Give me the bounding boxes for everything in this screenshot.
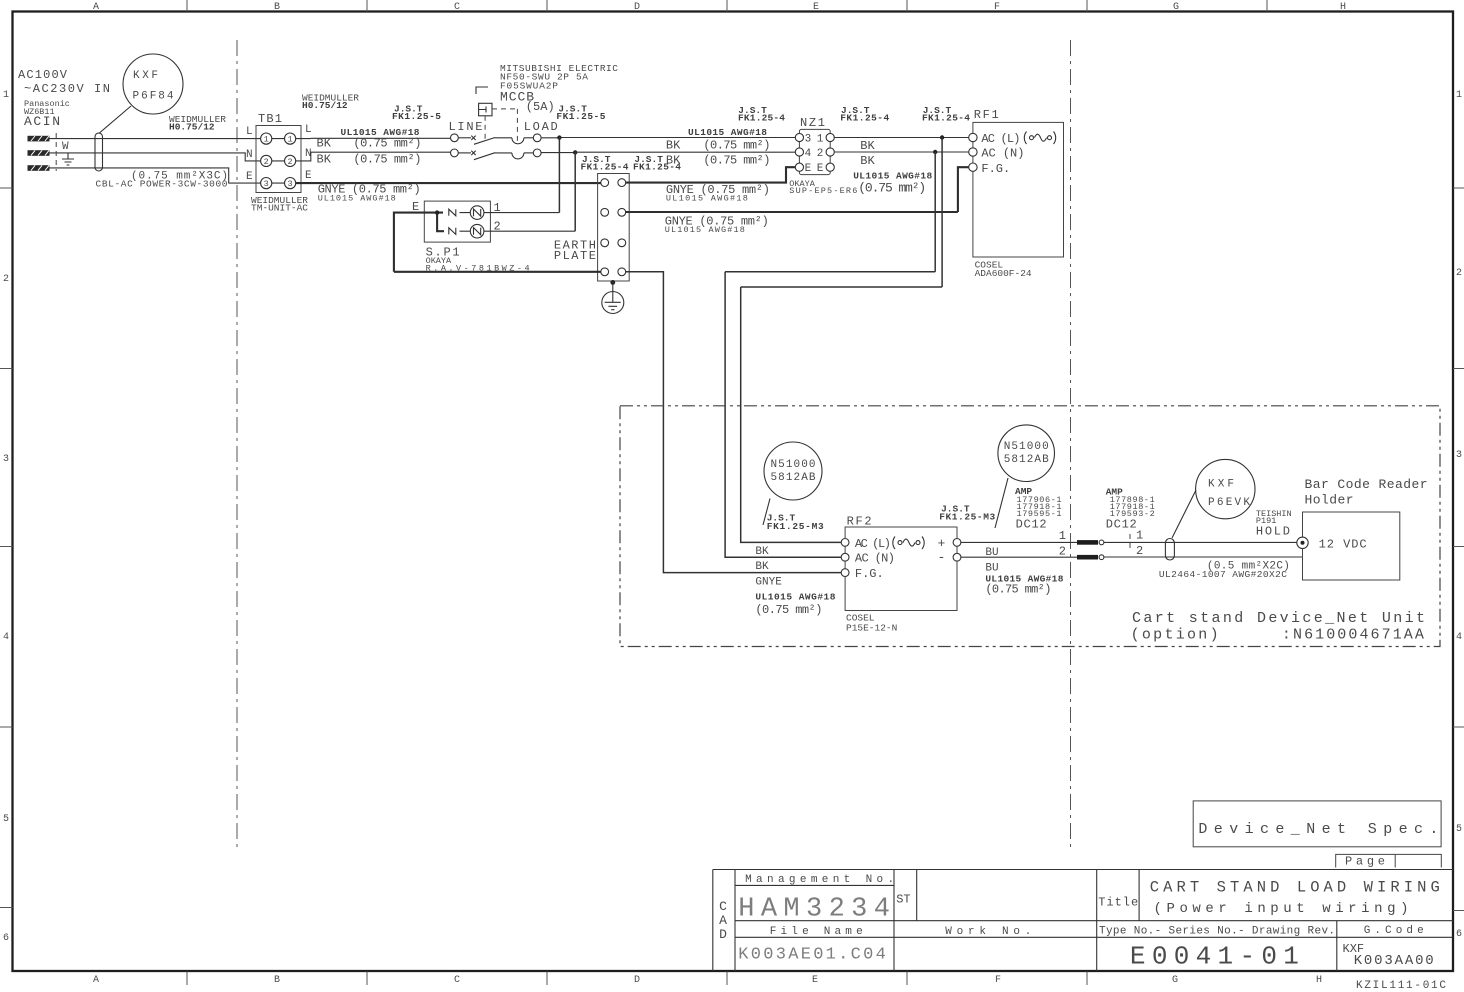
svg-text:1: 1 bbox=[288, 135, 293, 145]
svg-text:D: D bbox=[634, 2, 640, 13]
svg-text:HAM3234: HAM3234 bbox=[738, 895, 890, 925]
svg-text:F: F bbox=[994, 2, 1000, 13]
svg-text:3: 3 bbox=[1456, 450, 1462, 461]
svg-text:BK: BK bbox=[666, 154, 681, 168]
svg-text:KZIL111-01C: KZIL111-01C bbox=[1356, 980, 1446, 992]
svg-text:F.G.: F.G. bbox=[981, 162, 1010, 176]
svg-text:1: 1 bbox=[264, 135, 269, 145]
svg-text:(0.75 mm²): (0.75 mm²) bbox=[703, 138, 770, 152]
svg-text:AC (N): AC (N) bbox=[981, 147, 1024, 161]
svg-text:2: 2 bbox=[1456, 268, 1462, 279]
svg-text:P6F84: P6F84 bbox=[133, 91, 174, 103]
svg-text:LOAD: LOAD bbox=[524, 120, 558, 134]
svg-text:3: 3 bbox=[288, 179, 293, 189]
svg-text:1: 1 bbox=[1456, 90, 1462, 101]
svg-text:(0.75 mm²): (0.75 mm²) bbox=[985, 583, 1051, 597]
svg-text:FK1.25-4: FK1.25-4 bbox=[840, 113, 889, 124]
svg-text:A: A bbox=[93, 975, 99, 986]
svg-text:H: H bbox=[1316, 975, 1322, 986]
svg-text:3: 3 bbox=[805, 133, 812, 145]
svg-text:AC (L): AC (L) bbox=[855, 537, 891, 551]
svg-text:L: L bbox=[246, 126, 253, 138]
svg-text:K003AA00: K003AA00 bbox=[1354, 953, 1434, 969]
svg-text:UL1015 AWG#18: UL1015 AWG#18 bbox=[318, 194, 396, 204]
svg-text:E: E bbox=[246, 171, 253, 183]
svg-text:1: 1 bbox=[817, 133, 824, 145]
svg-text:2: 2 bbox=[1059, 545, 1066, 559]
svg-text:B: B bbox=[274, 2, 280, 13]
svg-text:CBL-AC POWER-3CW-3000: CBL-AC POWER-3CW-3000 bbox=[96, 179, 228, 190]
svg-text:TM-UNIT-AC: TM-UNIT-AC bbox=[251, 203, 308, 214]
svg-text:G: G bbox=[1172, 975, 1178, 986]
svg-text:RF1: RF1 bbox=[974, 108, 999, 122]
svg-text:BK: BK bbox=[755, 561, 769, 573]
svg-text:(0.75 mm²): (0.75 mm²) bbox=[703, 154, 770, 168]
svg-text:N: N bbox=[246, 149, 253, 161]
svg-text:2: 2 bbox=[817, 148, 824, 160]
svg-text:4: 4 bbox=[805, 148, 812, 160]
svg-text:N51000: N51000 bbox=[771, 459, 816, 471]
svg-text:(0.75 mm²): (0.75 mm²) bbox=[353, 153, 421, 167]
svg-text:AC100V: AC100V bbox=[18, 68, 68, 82]
svg-text:W: W bbox=[62, 141, 69, 153]
svg-text:E: E bbox=[812, 975, 818, 986]
svg-text:D: D bbox=[719, 927, 727, 942]
svg-text:DC12: DC12 bbox=[1016, 518, 1047, 532]
svg-text:BU: BU bbox=[985, 547, 998, 559]
svg-text:1: 1 bbox=[1059, 529, 1066, 543]
svg-text:1: 1 bbox=[1136, 529, 1143, 543]
svg-text:NZ1: NZ1 bbox=[800, 116, 825, 130]
svg-text:FK1.25-4: FK1.25-4 bbox=[738, 113, 785, 124]
svg-text:HOLD: HOLD bbox=[1256, 525, 1290, 539]
svg-text:E: E bbox=[805, 163, 812, 175]
svg-text:1: 1 bbox=[494, 201, 501, 215]
svg-text:2: 2 bbox=[288, 157, 293, 167]
svg-text:(0.75 mm²): (0.75 mm²) bbox=[755, 603, 822, 617]
svg-text:P6EVK: P6EVK bbox=[1208, 497, 1250, 509]
svg-text:File Name: File Name bbox=[770, 926, 863, 938]
svg-text:Holder: Holder bbox=[1305, 493, 1354, 508]
svg-text:UL1015 AWG#18: UL1015 AWG#18 bbox=[666, 194, 748, 204]
svg-text:Bar Code Reader: Bar Code Reader bbox=[1305, 477, 1428, 492]
svg-text:2: 2 bbox=[1136, 544, 1143, 558]
svg-text:P15E-12-N: P15E-12-N bbox=[846, 623, 897, 634]
svg-text:UL1015 AWG#18: UL1015 AWG#18 bbox=[688, 127, 767, 138]
svg-text:AC (N): AC (N) bbox=[855, 552, 895, 566]
svg-text:1: 1 bbox=[3, 90, 9, 101]
svg-text:G: G bbox=[1173, 2, 1179, 13]
svg-text:3: 3 bbox=[264, 179, 269, 189]
svg-text:ADA600F-24: ADA600F-24 bbox=[975, 268, 1032, 279]
svg-text:FK1.25-M3: FK1.25-M3 bbox=[939, 512, 995, 523]
svg-text:GNYE: GNYE bbox=[755, 577, 782, 589]
svg-text:5: 5 bbox=[3, 814, 9, 825]
svg-text:RF2: RF2 bbox=[847, 515, 872, 529]
svg-text:F.G.: F.G. bbox=[855, 567, 884, 581]
svg-text:LINE: LINE bbox=[449, 120, 483, 134]
svg-text:H0.75/12: H0.75/12 bbox=[302, 100, 348, 111]
svg-text:3: 3 bbox=[3, 454, 9, 465]
svg-text:KXF: KXF bbox=[133, 70, 158, 82]
svg-text:5812AB: 5812AB bbox=[771, 472, 816, 484]
svg-text:BK: BK bbox=[860, 154, 875, 168]
svg-text:4: 4 bbox=[3, 632, 9, 643]
svg-text:Type No.- Series No.- Drawing: Type No.- Series No.- Drawing Rev. bbox=[1099, 926, 1335, 938]
svg-text:BK: BK bbox=[317, 137, 332, 151]
svg-text:FK1.25-M3: FK1.25-M3 bbox=[767, 521, 824, 532]
svg-text:A: A bbox=[719, 913, 727, 928]
svg-text:L: L bbox=[305, 124, 312, 136]
svg-text:E: E bbox=[813, 2, 819, 13]
svg-text:E: E bbox=[305, 170, 312, 182]
svg-text:2: 2 bbox=[494, 220, 501, 234]
svg-text:A: A bbox=[93, 2, 99, 13]
svg-text:FK1.25-4: FK1.25-4 bbox=[922, 113, 970, 124]
svg-text:ST: ST bbox=[896, 893, 910, 907]
svg-text:H0.75/12: H0.75/12 bbox=[169, 122, 215, 133]
svg-text:KXF: KXF bbox=[1208, 479, 1234, 491]
svg-text:B: B bbox=[274, 975, 280, 986]
svg-text:~AC230V IN: ~AC230V IN bbox=[24, 82, 110, 96]
svg-text:5812AB: 5812AB bbox=[1004, 454, 1049, 466]
svg-text:2: 2 bbox=[3, 274, 9, 285]
svg-text:UL1015 AWG#18: UL1015 AWG#18 bbox=[665, 225, 745, 235]
svg-text:BK: BK bbox=[317, 153, 332, 167]
svg-text:DC12: DC12 bbox=[1106, 518, 1137, 532]
svg-text:FK1.25-5: FK1.25-5 bbox=[556, 111, 605, 122]
svg-text:TB1: TB1 bbox=[258, 112, 282, 126]
svg-text:12 VDC: 12 VDC bbox=[1319, 538, 1367, 552]
svg-text:-: - bbox=[938, 550, 946, 565]
svg-text:6: 6 bbox=[3, 933, 9, 944]
svg-text:(0.75 mm²): (0.75 mm²) bbox=[858, 181, 926, 196]
svg-text:BK: BK bbox=[860, 139, 875, 153]
svg-text:6: 6 bbox=[1456, 929, 1462, 940]
svg-text:BK: BK bbox=[755, 546, 769, 558]
svg-text:BK: BK bbox=[666, 138, 681, 152]
svg-text:PLATE: PLATE bbox=[554, 249, 596, 263]
svg-text:(5A): (5A) bbox=[526, 100, 555, 114]
svg-text:C: C bbox=[719, 899, 727, 914]
svg-text:UL1015 AWG#18: UL1015 AWG#18 bbox=[755, 592, 835, 603]
svg-text:C: C bbox=[454, 975, 460, 986]
svg-text:H: H bbox=[1340, 2, 1346, 13]
svg-text:ACIN: ACIN bbox=[24, 114, 60, 129]
svg-text:4: 4 bbox=[1456, 632, 1462, 643]
svg-text:SUP-EP5-ER6: SUP-EP5-ER6 bbox=[789, 186, 857, 196]
svg-text:AC (L): AC (L) bbox=[981, 132, 1020, 146]
svg-text:FK1.25-5: FK1.25-5 bbox=[392, 111, 441, 122]
svg-text:FK1.25-4: FK1.25-4 bbox=[581, 162, 629, 173]
svg-text:N51000: N51000 bbox=[1004, 441, 1049, 453]
svg-text:D: D bbox=[634, 975, 640, 986]
svg-text:2: 2 bbox=[264, 157, 269, 167]
svg-text:(0.75 mm²): (0.75 mm²) bbox=[353, 137, 421, 151]
svg-text:5: 5 bbox=[1456, 824, 1462, 835]
svg-text:E: E bbox=[817, 163, 824, 175]
svg-text:Title: Title bbox=[1098, 896, 1138, 910]
svg-text:+: + bbox=[938, 536, 946, 551]
svg-text:F: F bbox=[995, 975, 1001, 986]
svg-text:UL2464-1007 AWG#20X2C: UL2464-1007 AWG#20X2C bbox=[1159, 569, 1287, 580]
svg-text:C: C bbox=[454, 2, 460, 13]
